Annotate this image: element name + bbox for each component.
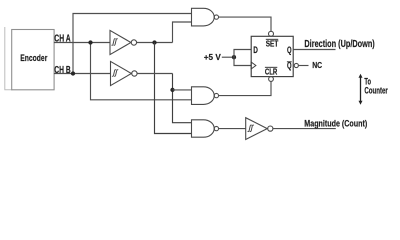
Qbar bubble: [294, 63, 298, 67]
clock triangle: [251, 62, 256, 69]
inverter U1A (Schmitt, channel A): [110, 30, 137, 54]
svg-text:D: D: [253, 45, 258, 55]
wire CH B horizontal: [54, 73, 111, 75]
svg-text:Counter: Counter: [364, 85, 387, 96]
wire CH A horizontal: [54, 42, 111, 44]
NAND U4 (middle): [192, 87, 219, 105]
wire +5V to D: [234, 50, 251, 58]
SET bubble: [269, 31, 274, 36]
node +5V: [232, 55, 236, 59]
inverter U6 (Schmitt, magnitude): [246, 118, 273, 140]
wire +5V stub: [222, 56, 234, 58]
wire B' to middle NAND input 1: [173, 89, 192, 91]
svg-text:SET: SET: [266, 39, 279, 49]
svg-text:NC: NC: [312, 61, 322, 71]
wire Q output: [293, 49, 335, 51]
svg-text:Magnitude (Count): Magnitude (Count): [304, 117, 367, 128]
wire CH B up to top NAND input: [73, 14, 192, 74]
NAND U2 (top): [192, 8, 219, 26]
wire Qbar to NC: [298, 65, 308, 67]
wire magnitude output: [273, 128, 336, 130]
wire A' up to top NAND input 2: [173, 22, 192, 43]
wire B' down to bottom NAND input 1: [173, 74, 192, 123]
inverter U1B (Schmitt, channel B): [111, 61, 138, 85]
node CH A junction: [88, 40, 92, 44]
wire B' output: [137, 73, 172, 75]
wire A' output: [137, 42, 173, 44]
svg-text:Direction (Up/Down): Direction (Up/Down): [304, 38, 374, 49]
wire NAND U5 output: [219, 128, 246, 130]
flip-flop U3: [251, 31, 293, 81]
svg-text:CLR: CLR: [265, 69, 277, 77]
wire NAND U4 output to CLR: [219, 82, 271, 96]
node B' junction: [170, 88, 174, 92]
wire CH A down to middle NAND input: [91, 43, 192, 100]
node A' junction: [152, 40, 156, 44]
CLR bubble: [269, 77, 274, 82]
wire NAND U2 output to SET: [219, 17, 271, 31]
svg-text:Encoder: Encoder: [20, 53, 47, 63]
svg-text:+5 V: +5 V: [204, 53, 221, 62]
To Counter arrow: [359, 74, 363, 105]
frame remnant (cropped figure edge, light gray): [5, 27, 12, 90]
wire +5V to CLK: [234, 57, 251, 65]
wire A' down to bottom NAND input 2: [155, 43, 192, 134]
node CH B junction: [71, 71, 75, 75]
NAND U5 (bottom): [192, 120, 219, 137]
encoder: [12, 30, 54, 90]
svg-text:Q: Q: [287, 45, 292, 56]
